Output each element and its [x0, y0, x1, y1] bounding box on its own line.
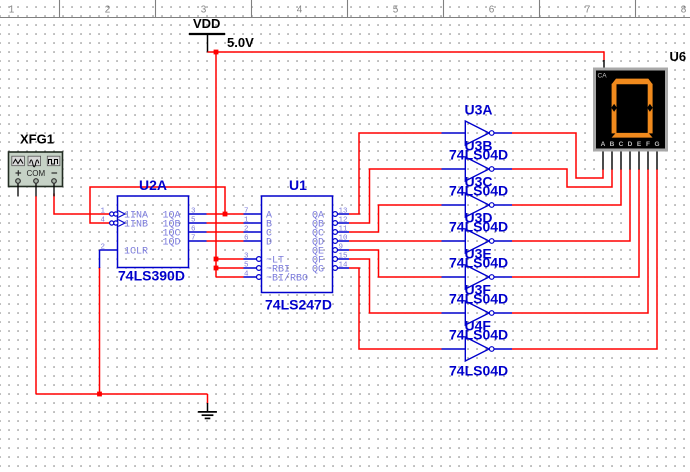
svg-text:U4F: U4F	[465, 318, 492, 334]
svg-text:A: A	[601, 141, 606, 148]
svg-text:15: 15	[339, 252, 349, 260]
svg-text:D: D	[266, 238, 272, 249]
svg-text:12: 12	[339, 216, 348, 224]
svg-text:U3F: U3F	[465, 282, 492, 298]
svg-text:~BI/RBO: ~BI/RBO	[266, 273, 308, 285]
svg-text:4: 4	[297, 4, 303, 15]
svg-text:4: 4	[244, 270, 249, 278]
svg-text:1INB: 1INB	[124, 220, 148, 231]
svg-text:U2A: U2A	[139, 177, 167, 193]
svg-text:3: 3	[191, 207, 196, 215]
svg-text:U6: U6	[670, 49, 687, 64]
svg-text:C: C	[619, 141, 624, 148]
svg-text:1: 1	[101, 207, 106, 215]
svg-text:3: 3	[201, 4, 207, 15]
svg-text:1CLR: 1CLR	[124, 247, 148, 258]
svg-text:1: 1	[9, 4, 15, 15]
svg-text:11: 11	[339, 225, 349, 233]
svg-text:U3B: U3B	[465, 138, 493, 154]
svg-text:7: 7	[191, 234, 196, 242]
svg-text:74LS247D: 74LS247D	[265, 297, 332, 313]
svg-text:10: 10	[339, 234, 349, 242]
svg-text:U3E: U3E	[465, 246, 492, 262]
svg-text:1: 1	[244, 216, 249, 224]
svg-text:CA: CA	[598, 73, 608, 80]
svg-text:D: D	[628, 141, 633, 148]
svg-text:U3A: U3A	[465, 102, 493, 118]
svg-text:74LS390D: 74LS390D	[118, 268, 185, 284]
svg-text:VDD: VDD	[193, 16, 220, 31]
svg-text:U3D: U3D	[465, 210, 493, 226]
svg-text:B: B	[610, 141, 615, 148]
svg-text:COM: COM	[26, 169, 45, 178]
svg-text:U3C: U3C	[465, 174, 493, 190]
svg-text:6: 6	[489, 4, 495, 15]
svg-text:F: F	[646, 141, 650, 148]
svg-text:5: 5	[191, 216, 196, 224]
svg-text:5.0V: 5.0V	[227, 35, 254, 50]
svg-text:U1: U1	[289, 177, 307, 193]
svg-text:6: 6	[244, 234, 249, 242]
svg-text:2: 2	[244, 225, 249, 233]
svg-text:5: 5	[244, 261, 249, 269]
svg-text:6: 6	[191, 225, 196, 233]
svg-text:9: 9	[339, 243, 344, 251]
svg-text:13: 13	[339, 207, 349, 215]
svg-text:4: 4	[101, 216, 106, 224]
svg-text:QG: QG	[312, 265, 324, 276]
svg-text:XFG1: XFG1	[20, 132, 54, 147]
svg-text:2: 2	[105, 4, 111, 15]
svg-text:3: 3	[244, 252, 249, 260]
svg-text:G: G	[654, 141, 659, 148]
svg-text:7: 7	[585, 4, 591, 15]
svg-text:E: E	[637, 141, 642, 148]
svg-text:5: 5	[393, 4, 399, 15]
svg-text:2: 2	[101, 243, 106, 251]
svg-text:8: 8	[681, 4, 687, 15]
svg-text:14: 14	[339, 261, 349, 269]
svg-text:7: 7	[244, 207, 249, 215]
svg-text:74LS04D: 74LS04D	[449, 363, 508, 379]
svg-text:1QD: 1QD	[162, 238, 180, 249]
